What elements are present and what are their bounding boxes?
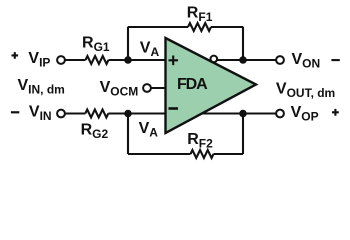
op-amp U1 noninverting input mark +	[169, 56, 179, 66]
wire output bottom (op-amp to VOP terminal)	[200, 112, 276, 114]
wire VIP input lead	[65, 59, 86, 61]
resistor RG2	[81, 110, 109, 142]
wire RG1 to node VA top	[109, 59, 168, 61]
wire VIN input lead	[65, 112, 86, 114]
svg-text:FDA: FDA	[177, 76, 208, 93]
op-amp U1 inverting input mark -	[169, 107, 179, 110]
node VON junction	[239, 56, 247, 64]
terminal VON	[276, 56, 284, 64]
wire RF2 bottom right segment	[214, 153, 244, 155]
polarity mark + at VOP	[332, 109, 339, 116]
node VA bottom junction	[124, 110, 132, 118]
wire RF2 bottom left segment	[128, 153, 191, 155]
polarity mark - at VIN	[11, 111, 19, 113]
wire VA top feedback left leg	[127, 27, 129, 60]
wire RF2 right leg up to output node	[242, 114, 244, 155]
node VA top junction	[124, 56, 132, 64]
node VOP junction	[239, 110, 247, 118]
wire RF1 top left segment	[128, 26, 188, 28]
wire VA bottom feedback left leg	[127, 114, 129, 155]
terminal VOCM	[143, 84, 151, 92]
polarity mark - at VON	[331, 59, 339, 61]
wire output top (bubble to VON terminal)	[216, 59, 276, 61]
resistor RG1	[82, 35, 110, 64]
terminal VIP	[57, 56, 65, 64]
resistor RF1	[187, 4, 213, 31]
terminal VIN	[57, 110, 65, 118]
wire VOCM lead	[151, 87, 167, 89]
op-amp U1 FDA triangle	[166, 38, 257, 133]
wire RF1 top right segment	[211, 26, 243, 28]
polarity mark + at VIP	[12, 52, 19, 59]
wire RF1 right leg down to output node	[242, 27, 244, 60]
resistor RF2	[187, 131, 213, 158]
terminal VOP	[276, 110, 284, 118]
wire RG2 to node VA bottom	[108, 112, 167, 114]
op-amp U1 inverted output bubble	[211, 56, 218, 63]
